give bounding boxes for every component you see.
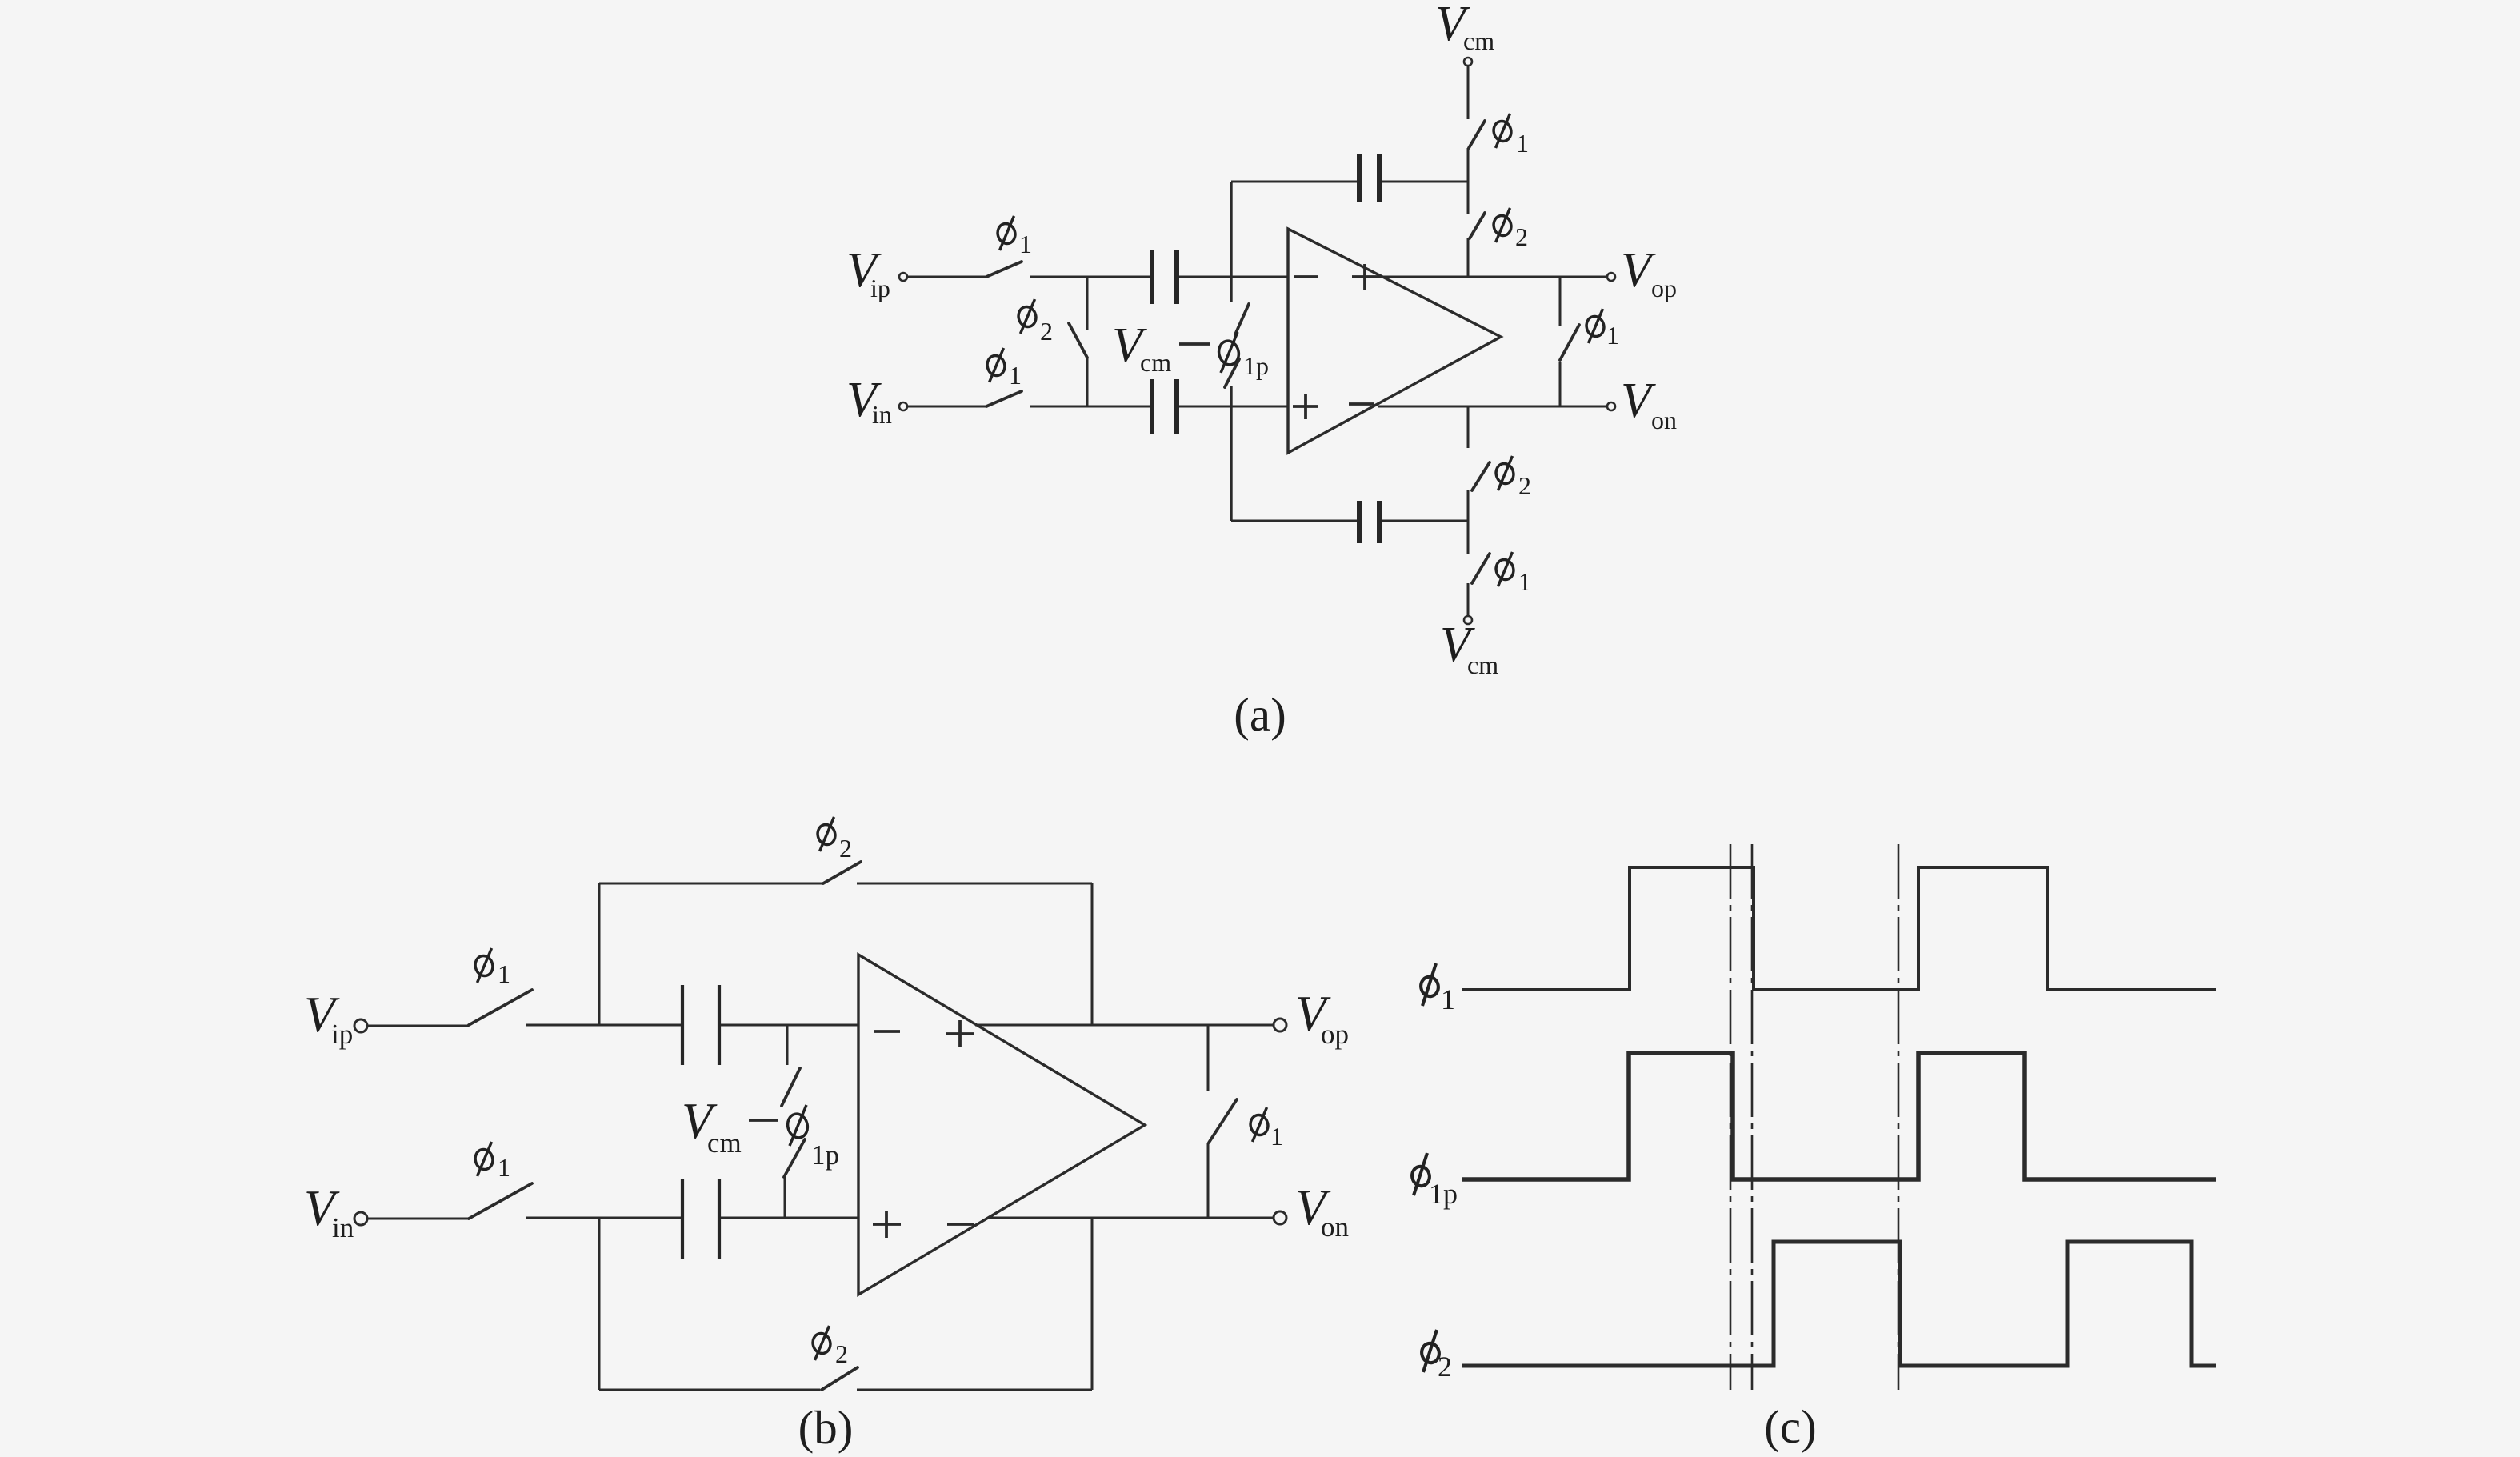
node Vcm top terminal: [1464, 58, 1472, 66]
capacitor Cs1: [682, 985, 719, 1065]
node Von terminal: [1607, 402, 1615, 410]
wire stub to phi2 reset switch: [1086, 277, 1089, 330]
wire Cs1 to op-amp: [721, 1024, 858, 1027]
label Vip: [846, 243, 890, 302]
label op-amp input minus: [1294, 275, 1318, 278]
svg-text:op: op: [1321, 1019, 1349, 1050]
wire phi2 switch to Vin rail: [1086, 358, 1089, 406]
svg-text:cm: cm: [1140, 348, 1171, 377]
label phi1p clock: [1410, 1153, 1458, 1210]
wire feedback top left vertical: [598, 883, 601, 1025]
node Vip terminal: [354, 1019, 367, 1032]
capacitor Cf2: [1359, 501, 1379, 543]
label Vcm top: [1435, 0, 1494, 55]
svg-text:(b): (b): [798, 1401, 854, 1454]
switch phi2 top right: [1470, 213, 1485, 238]
wire Vcm top down: [1467, 66, 1470, 119]
wire output switch to Von rail: [1207, 1143, 1210, 1219]
label op-amp output plus top: [946, 1020, 974, 1047]
wire stub phi1p upper: [786, 1025, 789, 1065]
wire bottom feedback horizontal right: [857, 1389, 1092, 1391]
wire Vop rail: [1378, 276, 1607, 278]
node Vin terminal: [899, 402, 907, 410]
op-amp U2: [858, 955, 1145, 1295]
wire to Vcm bottom terminal: [1467, 583, 1470, 616]
wire Von rail to phi2 bottom: [1467, 406, 1470, 448]
label phi1 bottom input: [473, 1142, 510, 1182]
svg-text:in: in: [872, 400, 892, 429]
wire output switch to Von rail: [1559, 362, 1562, 406]
wire Cf1 to right vertical: [1382, 181, 1468, 183]
label Vcm minus: [682, 1093, 778, 1159]
label phi2 top feedback: [815, 817, 852, 863]
label op-amp output minus bottom: [947, 1223, 974, 1226]
label phi2 clock: [1420, 1330, 1452, 1383]
switch phi1p blade lower: [784, 1139, 805, 1177]
waveform phi2: [1462, 1242, 2216, 1366]
label op-amp output plus top: [1352, 264, 1378, 290]
label phi1 top input: [473, 948, 510, 988]
capacitor Cs2: [1152, 379, 1177, 434]
switch phi1p blade upper: [1235, 304, 1249, 334]
label phi1 output: [1584, 309, 1619, 350]
svg-text:1: 1: [1441, 983, 1455, 1015]
node Von terminal: [1274, 1211, 1286, 1224]
wire Von rail: [990, 1217, 1274, 1219]
switch phi2 bottom right: [1472, 462, 1490, 490]
wire Vop rail: [975, 1024, 1274, 1027]
label phi2 bottom feedback: [810, 1326, 848, 1368]
label phi1 bottom right: [1494, 552, 1531, 596]
waveform phi1p: [1462, 1053, 2216, 1179]
capacitor Cf1: [1359, 154, 1379, 202]
wire Cf2 to right vertical: [1382, 520, 1468, 522]
svg-text:on: on: [1321, 1211, 1349, 1243]
svg-text:2: 2: [1518, 471, 1531, 500]
label Vcm bottom: [1440, 618, 1498, 679]
label phi1 top right: [1491, 114, 1529, 158]
marker dash-dot line phi1 fall: [1751, 844, 1754, 1390]
switch phi1p blade lower: [1225, 359, 1239, 387]
wire top feedback horizontal right: [857, 883, 1092, 885]
svg-text:1: 1: [498, 959, 510, 988]
label phi1p: [1217, 332, 1269, 380]
label Von: [1621, 374, 1677, 434]
svg-text:2: 2: [1438, 1351, 1452, 1383]
label op-amp input plus: [1293, 394, 1318, 419]
wire switch to Cs1: [526, 1024, 681, 1027]
svg-text:in: in: [332, 1212, 354, 1243]
svg-text:2: 2: [1040, 317, 1053, 346]
wire feedback top right vertical: [1091, 883, 1094, 1025]
svg-text:1: 1: [1270, 1122, 1283, 1151]
label op-amp input minus: [874, 1030, 900, 1033]
svg-text:1: 1: [1516, 129, 1529, 158]
label Vcm minus: [1112, 318, 1210, 377]
label op-amp output minus bottom: [1349, 402, 1374, 406]
switch phi1 bottom right: [1472, 554, 1490, 583]
svg-text:(a): (a): [1234, 688, 1286, 741]
wire switch to Cs2: [1030, 406, 1150, 408]
svg-text:cm: cm: [1467, 650, 1498, 679]
wire feedback bottom left vertical: [598, 1218, 601, 1390]
waveform phi1: [1462, 867, 2216, 990]
wire to bottom feedback junction: [1467, 490, 1470, 554]
svg-text:1: 1: [1009, 361, 1022, 390]
switch phi1 top input: [986, 262, 1022, 277]
svg-text:1: 1: [1606, 321, 1619, 350]
label Vip: [304, 987, 353, 1050]
label phi1 clock: [1419, 963, 1455, 1015]
wire Cs2 to op-amp: [1179, 406, 1288, 408]
label phi1 output: [1248, 1107, 1283, 1151]
switch phi1 top right: [1469, 121, 1485, 148]
svg-text:2: 2: [839, 834, 852, 863]
wire feedback bottom right vertical: [1091, 1218, 1094, 1390]
switch phi2 reset blade: [1069, 323, 1087, 358]
label Vin: [304, 1180, 354, 1243]
svg-text:1: 1: [498, 1153, 510, 1182]
label phi2 reset: [1016, 299, 1053, 346]
wire Cs1 to op-amp: [1179, 276, 1288, 278]
wire Vip to switch: [907, 276, 986, 278]
switch phi1 bottom input: [469, 1183, 532, 1219]
wire feedback left vertical bottom: [1230, 386, 1232, 521]
capacitor Cs2: [682, 1179, 719, 1259]
label Von: [1295, 1179, 1349, 1243]
svg-text:2: 2: [1515, 222, 1528, 251]
switch phi1 output: [1560, 325, 1579, 360]
wire feedback left vertical top: [1230, 182, 1232, 302]
svg-text:op: op: [1651, 274, 1677, 302]
label phi2 bottom right: [1494, 456, 1531, 500]
svg-text:cm: cm: [1463, 26, 1494, 55]
wire Vip to switch: [368, 1025, 469, 1027]
label phi2 top right: [1491, 208, 1528, 251]
label Vop: [1295, 986, 1349, 1050]
svg-text:ip: ip: [331, 1019, 353, 1050]
svg-text:1: 1: [1518, 567, 1531, 596]
label Vop: [1621, 243, 1677, 302]
switch phi2 top feedback: [823, 862, 861, 883]
svg-text:1p: 1p: [1429, 1178, 1458, 1210]
svg-text:2: 2: [835, 1339, 848, 1368]
svg-text:ip: ip: [870, 274, 890, 302]
marker dash-dot line phi2 fall: [1898, 844, 1900, 1390]
wire Cs2 to op-amp: [721, 1217, 858, 1219]
wire Vin to switch: [907, 406, 986, 408]
node Vop terminal: [1274, 1019, 1286, 1031]
wire stub phi1p lower: [784, 1177, 786, 1218]
wire Vin to switch: [368, 1218, 469, 1220]
op-amp U1: [1288, 229, 1501, 453]
label phi1 top input: [995, 216, 1032, 258]
wire bottom feedback horizontal: [1231, 520, 1357, 522]
label op-amp input plus: [873, 1211, 901, 1238]
marker dash-dot line phi1p fall: [1730, 844, 1732, 1390]
wire stub output switch top: [1559, 277, 1562, 326]
switch phi1 bottom input: [986, 391, 1022, 406]
switch phi2 bottom feedback: [822, 1367, 858, 1390]
svg-text:on: on: [1651, 406, 1677, 434]
svg-text:1p: 1p: [811, 1139, 839, 1171]
svg-text:(c): (c): [1764, 1400, 1816, 1453]
svg-text:cm: cm: [707, 1127, 742, 1159]
wire top feedback horizontal left: [599, 883, 822, 885]
wire switch to Cs2: [526, 1217, 681, 1219]
label phi1 bottom input: [985, 348, 1022, 390]
switch phi1 top input: [469, 990, 532, 1025]
label Vin: [846, 373, 892, 429]
capacitor Cs1: [1152, 250, 1177, 304]
wire stub output switch top: [1207, 1025, 1210, 1091]
wire to top feedback junction: [1467, 148, 1470, 214]
wire phi2 to Vop rail: [1467, 238, 1470, 277]
svg-text:1: 1: [1019, 230, 1032, 258]
svg-text:1p: 1p: [1243, 351, 1269, 380]
switch phi1 output: [1209, 1099, 1237, 1143]
wire switch to Cs1: [1030, 276, 1150, 278]
node Vip terminal: [899, 273, 907, 281]
node Vin terminal: [354, 1212, 367, 1225]
node Vop terminal: [1607, 273, 1615, 281]
label phi1p: [786, 1105, 839, 1171]
node Vcm bottom terminal: [1464, 616, 1472, 624]
switch phi1p blade upper: [782, 1068, 800, 1106]
wire Von rail: [1378, 406, 1607, 408]
wire bottom feedback horizontal left: [599, 1389, 820, 1391]
wire top feedback horizontal: [1231, 181, 1357, 183]
